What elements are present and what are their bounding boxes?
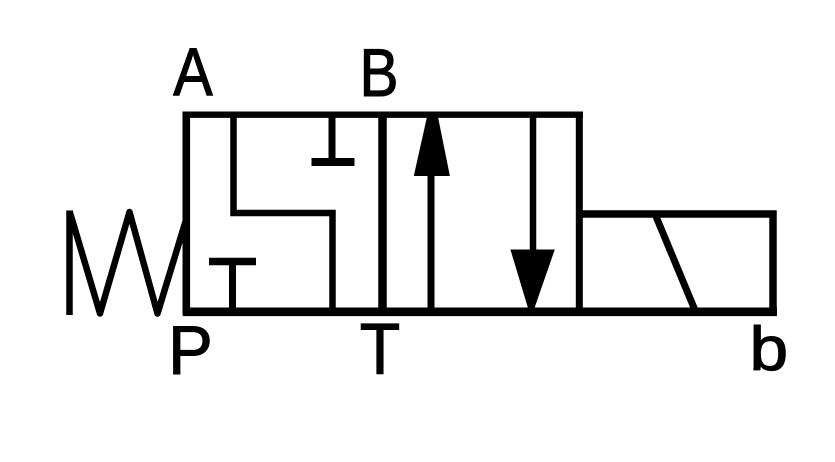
left position: blocked port stub from bottom (P side)	[229, 262, 236, 313]
right position: up flow arrow shaft	[428, 172, 435, 312]
svg-text:b: b	[749, 313, 788, 383]
left position: blocked port stub from top (B side)	[329, 112, 336, 162]
svg-text:B: B	[359, 36, 398, 111]
svg-text:P: P	[168, 312, 213, 389]
valve body + solenoid shared bottom edge	[183, 307, 777, 316]
right position: up flow arrowhead	[414, 115, 450, 177]
envelope divider (B/T position line)	[378, 112, 387, 315]
right position: down flow arrowhead	[510, 250, 554, 309]
svg-text:A: A	[173, 33, 213, 110]
valve body envelope: right edge	[576, 112, 583, 316]
spring return (zigzag)	[70, 211, 187, 316]
solenoid diagonal stroke	[655, 214, 695, 309]
left position: elbow flow path A-to-T	[234, 113, 333, 313]
right position: down flow arrow shaft	[530, 114, 537, 254]
svg-text:T: T	[360, 308, 400, 389]
valve body envelope: left edge	[183, 112, 191, 316]
left position: blocked port crossbar upper	[312, 158, 355, 166]
solenoid box	[580, 214, 774, 312]
left position: blocked port crossbar lower	[209, 258, 256, 266]
valve body envelope: top edge	[183, 111, 583, 117]
